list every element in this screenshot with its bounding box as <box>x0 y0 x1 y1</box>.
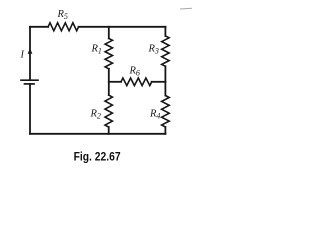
resistor R5 <box>48 23 79 31</box>
resistor R4 <box>162 96 170 128</box>
current arrow I <box>28 48 33 53</box>
wire top-left segment <box>30 26 48 28</box>
wire right branch mid <box>164 66 166 95</box>
svg-text:I: I <box>20 49 25 60</box>
wire left branch lower <box>29 84 31 134</box>
wire middle branch top lead <box>108 27 110 39</box>
wire middle branch mid <box>108 69 110 95</box>
resistor R1 <box>105 38 112 68</box>
svg-text:Fig. 22.67: Fig. 22.67 <box>74 150 121 164</box>
wire right branch top lead <box>164 27 166 36</box>
wire right branch bottom lead <box>164 127 166 134</box>
battery source plates <box>21 80 38 84</box>
wire R6 right lead <box>152 81 166 83</box>
resistor R3 <box>162 36 169 66</box>
wire middle branch bottom lead <box>108 127 110 134</box>
wire bottom <box>30 133 165 135</box>
resistor R2 <box>105 95 112 127</box>
wire top-right segment <box>79 26 166 28</box>
resistor R6 <box>121 78 152 86</box>
wire R6 left lead <box>109 81 121 83</box>
scan artifact dash <box>180 7 192 10</box>
wire left branch upper <box>29 27 31 80</box>
